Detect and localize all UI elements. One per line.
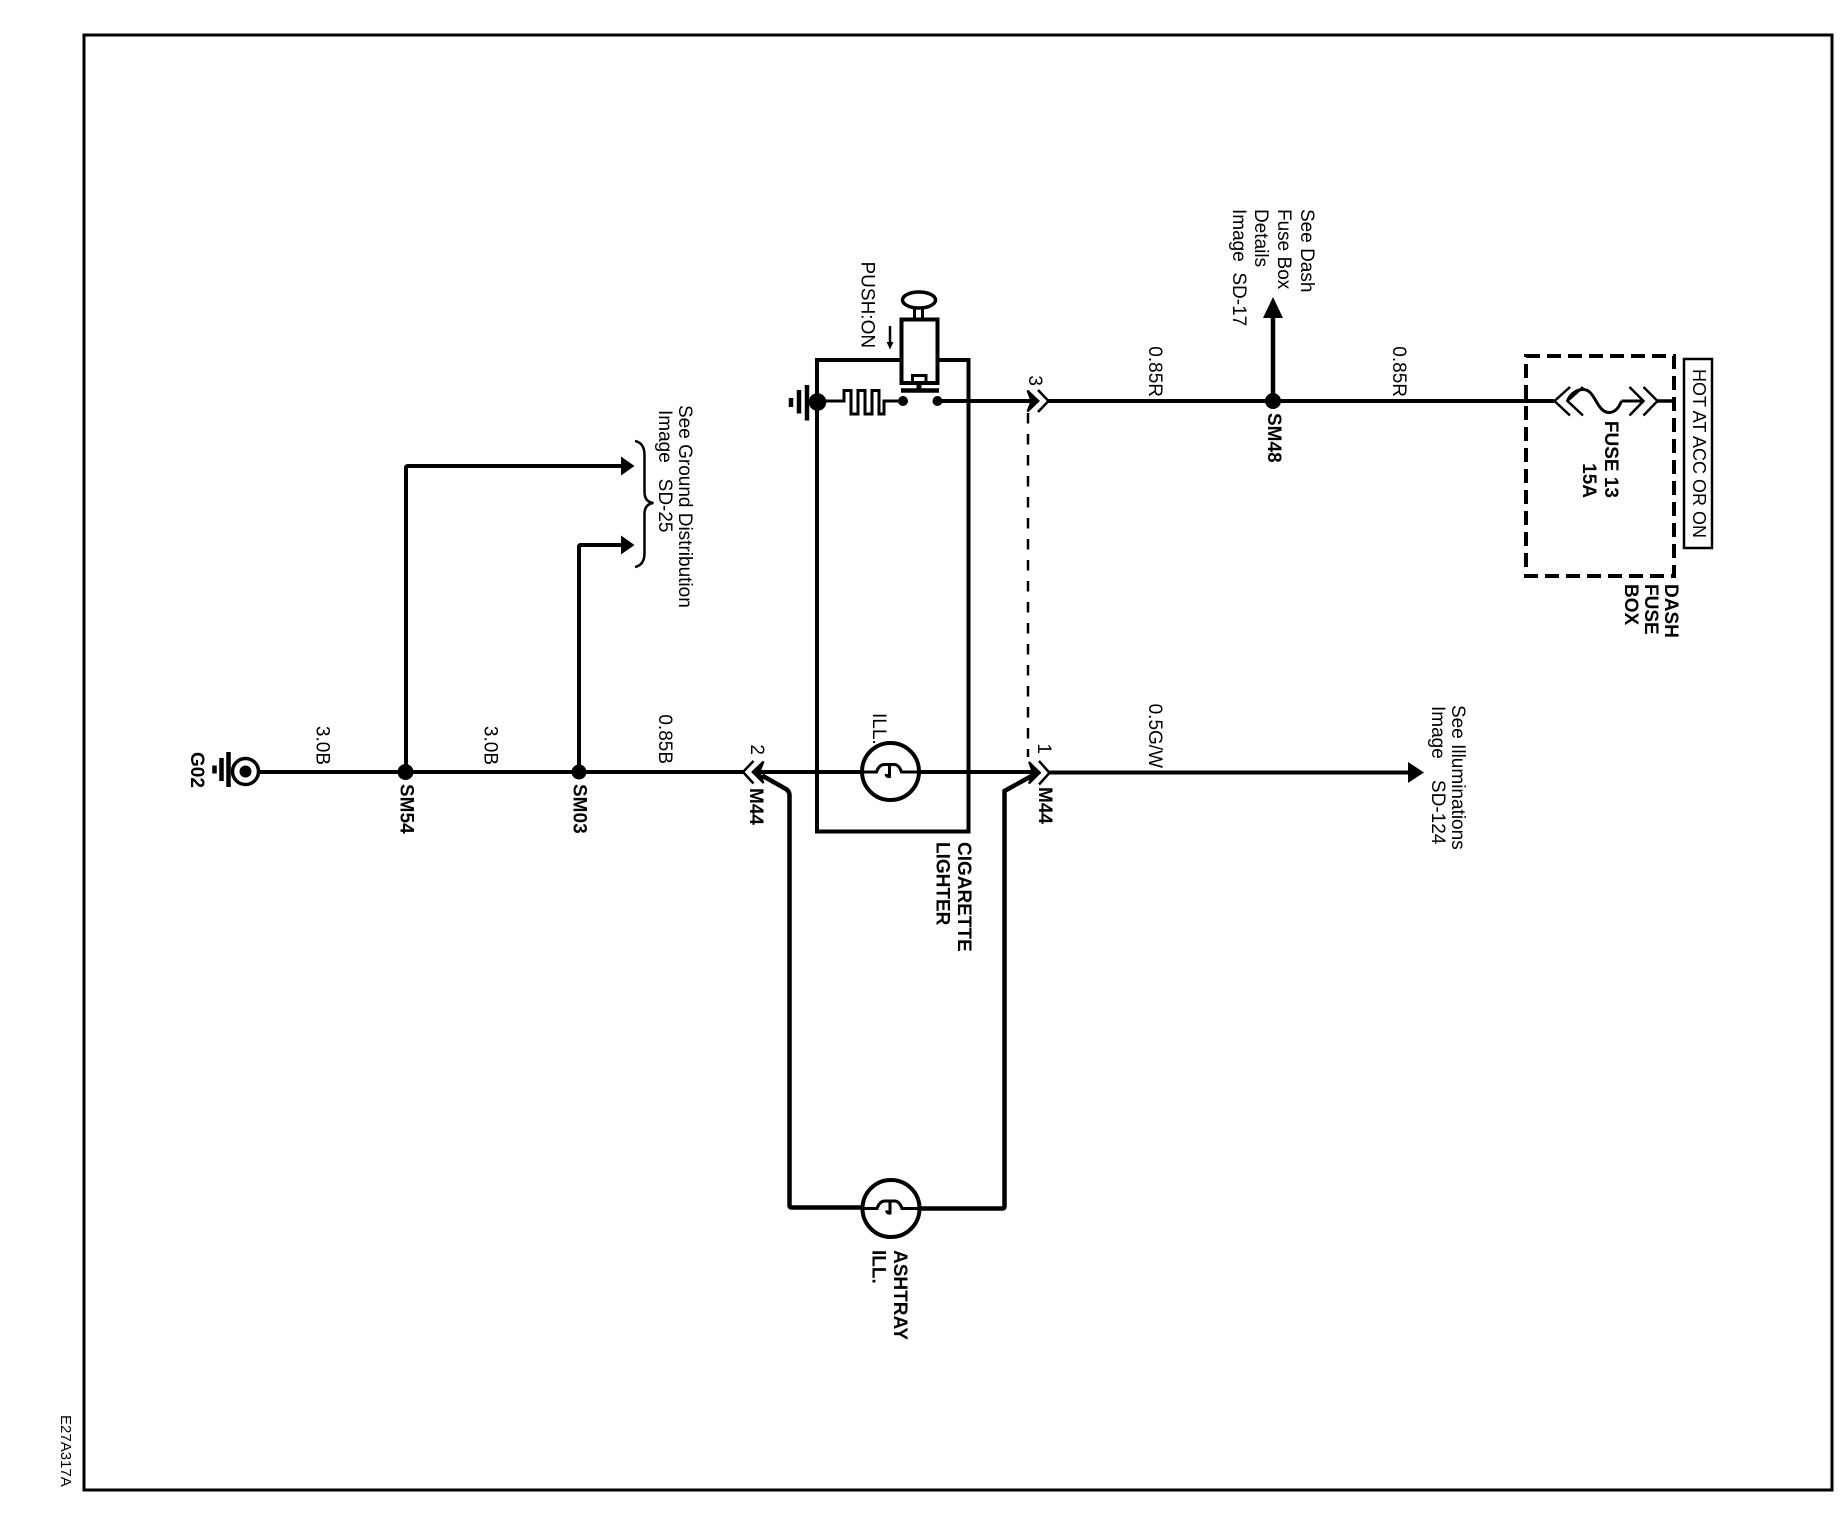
svg-text:2: 2 xyxy=(746,744,767,755)
svg-text:CIGARETTE: CIGARETTE xyxy=(953,842,974,952)
svg-text:3.0B: 3.0B xyxy=(312,726,333,765)
svg-text:Image SD-25: Image SD-25 xyxy=(654,410,675,533)
svg-text:PUSH:ON: PUSH:ON xyxy=(857,262,878,349)
svg-text:Details: Details xyxy=(1250,209,1271,267)
svg-text:HOT AT ACC OR ON: HOT AT ACC OR ON xyxy=(1689,369,1709,538)
svg-text:LIGHTER: LIGHTER xyxy=(932,842,953,926)
svg-text:BOX: BOX xyxy=(1620,584,1641,626)
svg-text:1: 1 xyxy=(1033,743,1054,754)
svg-text:SM54: SM54 xyxy=(396,784,417,834)
svg-text:3.0B: 3.0B xyxy=(480,726,501,765)
svg-text:0.85R: 0.85R xyxy=(1388,346,1409,397)
svg-text:ILL.: ILL. xyxy=(868,1250,889,1284)
svg-text:M44: M44 xyxy=(745,788,766,825)
svg-text:FUSE 13: FUSE 13 xyxy=(1600,421,1621,498)
svg-text:3: 3 xyxy=(1024,375,1045,386)
svg-text:15A: 15A xyxy=(1578,463,1599,498)
svg-text:0.5G/W: 0.5G/W xyxy=(1144,704,1165,768)
svg-text:SM03: SM03 xyxy=(569,784,590,834)
svg-text:SM48: SM48 xyxy=(1263,413,1284,463)
svg-text:See Ground Distribution: See Ground Distribution xyxy=(674,405,695,608)
svg-text:E27A317A: E27A317A xyxy=(57,1415,74,1487)
svg-text:ASHTRAY: ASHTRAY xyxy=(889,1250,910,1340)
svg-text:0.85R: 0.85R xyxy=(1144,346,1165,397)
svg-text:Fuse Box: Fuse Box xyxy=(1273,209,1294,290)
svg-text:DASH: DASH xyxy=(1660,584,1681,638)
svg-text:0.85B: 0.85B xyxy=(654,714,675,764)
svg-text:Image SD-17: Image SD-17 xyxy=(1228,209,1249,326)
svg-text:M44: M44 xyxy=(1034,787,1055,824)
svg-text:See Dash: See Dash xyxy=(1296,209,1317,292)
svg-text:FUSE: FUSE xyxy=(1640,584,1661,635)
svg-text:G02: G02 xyxy=(186,752,207,788)
svg-text:Image SD-124: Image SD-124 xyxy=(1427,706,1448,845)
svg-text:See Illuminations: See Illuminations xyxy=(1447,705,1468,850)
svg-text:ILL.: ILL. xyxy=(868,713,889,745)
